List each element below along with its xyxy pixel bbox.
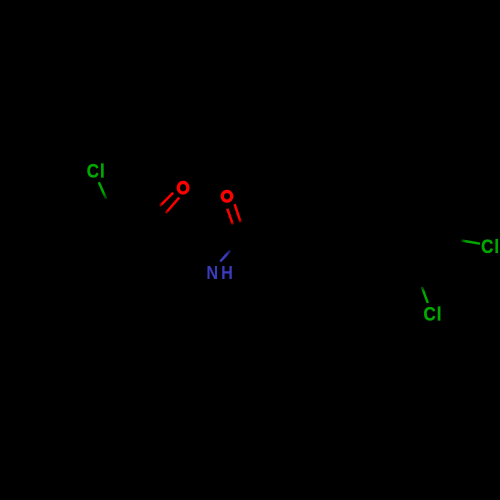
- bond N-C(O): [220, 251, 230, 262]
- bond C-Cl (top-left chloro): [99, 182, 106, 199]
- bond C=O ketone line 1: [160, 193, 173, 206]
- svg-text:NH: NH: [206, 262, 235, 283]
- bond C-Cl (bottom chloro): [422, 287, 428, 303]
- svg-text:Cl: Cl: [87, 160, 106, 181]
- atom label Cl (top-left): [87, 160, 106, 181]
- atom label Cl (bottom): [423, 303, 442, 324]
- bond C=O ketone line 2: [166, 198, 180, 214]
- atom label NH (amide nitrogen): [206, 262, 235, 283]
- bond C=O amide line 2: [235, 204, 241, 222]
- atom label Cl (right): [481, 236, 500, 257]
- svg-text:Cl: Cl: [423, 303, 442, 324]
- svg-text:Cl: Cl: [481, 236, 500, 257]
- atom label O (ketone): [178, 182, 188, 193]
- atom label O (amide): [222, 191, 232, 201]
- bond C-Cl (right chloro): [462, 241, 481, 244]
- bond C=O amide line 1: [227, 209, 233, 225]
